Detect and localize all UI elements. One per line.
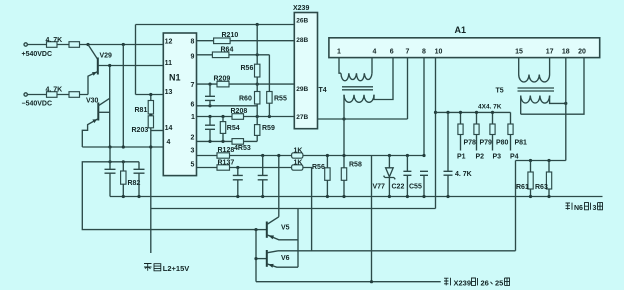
svg-text:R56: R56 [312, 164, 325, 171]
svg-text:R64: R64 [221, 47, 234, 54]
wire vertical to 26B top line [135, 25, 137, 95]
svg-text:12: 12 [165, 39, 173, 46]
svg-text:8: 8 [422, 49, 426, 56]
label 到N6的3脚 (to N6 pin 3) [566, 203, 573, 210]
wire pin20 line [521, 58, 584, 115]
node dot rail/R82 [122, 160, 125, 163]
svg-text:P3: P3 [493, 154, 502, 161]
resistor R61 leads [530, 161, 532, 197]
resistor R203 [148, 116, 153, 128]
transformer T5 upper winding [519, 75, 550, 83]
wire rail to V5/V6 base loop [82, 162, 256, 230]
svg-text:1: 1 [337, 49, 341, 56]
wire T5 lower winding left to pin20 line [520, 96, 522, 115]
node dot +540/V29 collector [86, 43, 89, 46]
svg-text:R55: R55 [274, 96, 287, 103]
svg-text:4: 4 [372, 49, 376, 56]
svg-text:1: 1 [191, 114, 195, 121]
resistor R58 [341, 168, 346, 181]
svg-text:A1: A1 [455, 25, 467, 35]
wire bottom line to X239 pins 26,25 [256, 281, 441, 283]
node dot 29B line / cap column [208, 83, 211, 86]
resistor R54 leads [222, 117, 224, 142]
node dot R56 lower top [326, 154, 329, 157]
wire pin6 line [197, 105, 258, 107]
node dot V29 base column [108, 64, 111, 67]
svg-text:17: 17 [546, 49, 554, 56]
module A1 box [329, 38, 600, 58]
resistor P81 [508, 124, 513, 135]
wire pin1 to X239 27B [197, 116, 295, 118]
transistor V30 emitter arrow [92, 119, 97, 123]
resistor (second, +540 row) [69, 42, 80, 48]
node dot pin6 / cap column [208, 104, 211, 107]
IC N1 box [163, 33, 196, 176]
resistor R55 [267, 92, 272, 104]
resistor R63 leads [548, 161, 550, 197]
resistor R64 [212, 52, 229, 58]
node dot pin3-line end / C55 top [422, 154, 425, 157]
node dot R63 top [547, 159, 550, 162]
wire X239 right edge to T4 lower winding / pin7 of A1 [318, 118, 408, 120]
resistor 1K (lower) [292, 165, 303, 170]
capacitor (pin5 to line A) [233, 168, 243, 197]
svg-text:26: 26 [481, 279, 489, 288]
svg-text:1K: 1K [294, 159, 303, 166]
svg-text:4: 4 [167, 139, 171, 146]
resistor R137 [217, 165, 230, 170]
svg-text:V6: V6 [281, 255, 290, 262]
node dots pin2 line [208, 140, 211, 143]
transistor V30 base wire [98, 111, 109, 113]
capacitor (29B to pin6) leads and plates [205, 84, 215, 106]
svg-text:7: 7 [406, 49, 410, 56]
resistor R82 leads [122, 162, 124, 197]
transistor V30 emitter [82, 119, 98, 147]
wire R81/R203/+15V feed column [150, 95, 152, 254]
node dot V6 base junction [254, 257, 257, 260]
transistor V30 collector [98, 98, 109, 106]
wire R61/R63 rail [516, 160, 566, 162]
node dot pin3 / V5 collector column [277, 154, 280, 157]
terminal +540VDC [24, 43, 27, 46]
transistor V29 emitter [88, 72, 98, 95]
resistor (second, -540 row) [69, 92, 80, 98]
capacitor C (left, under pin4 line) top lead [109, 147, 111, 169]
resistor R56 (upper) [255, 64, 260, 77]
svg-text:4. 7K: 4. 7K [455, 171, 472, 178]
svg-text:R137: R137 [218, 159, 235, 166]
transistor V6 collector [267, 251, 278, 253]
wire R55 column [268, 55, 270, 117]
ground/common line A across bottom [110, 196, 603, 198]
wire N1 pin14 line [151, 130, 164, 132]
resistor R60 [255, 92, 260, 105]
svg-text:N6: N6 [574, 205, 583, 212]
zener diode V77 leads [388, 156, 390, 197]
resistor R56 (lower) [325, 168, 330, 181]
svg-text:N1: N1 [169, 73, 181, 83]
svg-text:V5: V5 [281, 225, 290, 232]
wire V77 bypass column (pin3 line to bottom X239 line) [371, 156, 373, 282]
svg-text:14: 14 [165, 125, 173, 132]
resistor R59 [255, 125, 260, 136]
svg-text:20: 20 [578, 49, 586, 56]
wire A1 pin1 to T4 upper winding [339, 58, 341, 74]
svg-text:V77: V77 [373, 184, 386, 191]
svg-text:26B: 26B [296, 17, 308, 24]
svg-text:R203: R203 [132, 127, 149, 134]
svg-text:T4: T4 [319, 87, 327, 94]
svg-text:15: 15 [515, 49, 523, 56]
svg-text:+540VDC: +540VDC [22, 51, 53, 58]
svg-text:P80: P80 [496, 140, 509, 147]
svg-text:4. 7K: 4. 7K [46, 37, 63, 44]
svg-text:X239: X239 [454, 279, 472, 288]
node dot +540/column [122, 43, 125, 46]
svg-text:P1: P1 [457, 154, 466, 161]
resistor 4.7K (first, -540 row) [47, 92, 58, 98]
resistor P80 [490, 124, 495, 135]
svg-text:4. 7K: 4. 7K [46, 86, 63, 93]
resistor P79 leads [476, 112, 478, 150]
svg-text:4R53: 4R53 [234, 145, 251, 152]
wire A1 pin4 to T4 upper winding [371, 58, 373, 74]
svg-text:18: 18 [562, 49, 570, 56]
svg-text:13: 13 [165, 89, 173, 96]
svg-text:R59: R59 [262, 125, 275, 132]
transistor V6 emitter [267, 264, 298, 267]
svg-text:R60: R60 [239, 96, 252, 103]
transistor V29 base wire to N1 pin 11 [98, 65, 164, 67]
resistor R209 [217, 81, 229, 87]
capacitor C (left) bottom lead [109, 173, 111, 196]
resistor P81 leads [510, 112, 512, 150]
node dot pin4/cap1 column [108, 145, 111, 148]
svg-text:4X4. 7K: 4X4. 7K [478, 103, 502, 110]
svg-text:6: 6 [191, 102, 195, 109]
svg-text:5: 5 [191, 161, 195, 168]
wire top line to X239 pin 26B [136, 24, 295, 26]
label 来自L2+15V (from L2 +15V) [144, 264, 161, 271]
svg-text:R210: R210 [222, 32, 239, 39]
svg-text:3: 3 [593, 205, 597, 212]
resistor R128 [217, 153, 230, 158]
resistor P79 [474, 124, 479, 135]
wire pin3 line (to V77/C22/C55 tops) [197, 155, 425, 157]
svg-text:P2: P2 [476, 154, 485, 161]
svg-text:6: 6 [390, 49, 394, 56]
wire pin7 to X239 29B [197, 83, 295, 85]
wire pin9 / R64 line to R55 column [197, 54, 270, 56]
svg-text:P4: P4 [510, 154, 519, 161]
resistor R63 [546, 172, 551, 189]
transistor V5 base bar [266, 222, 268, 238]
capacitor C22 [403, 156, 411, 197]
node dot pin10 / 4X4.7K line [434, 111, 437, 114]
svg-text:29B: 29B [296, 86, 308, 93]
svg-text:7: 7 [191, 82, 195, 89]
transistor V5 emitter [267, 235, 298, 240]
node dot P80 [491, 111, 494, 114]
node dot pin3 line / cap [261, 154, 264, 157]
svg-text:C22: C22 [392, 184, 405, 191]
resistor R210 [214, 38, 231, 44]
node dot T4 lower-left column [342, 117, 345, 120]
node dot 29B line / R56-R60 column [256, 83, 259, 86]
transistor V6 base bar [266, 250, 268, 267]
resistor P78 [458, 124, 463, 135]
node dots pin1 line [208, 115, 211, 118]
svg-text:R81: R81 [135, 107, 148, 114]
svg-text:8: 8 [191, 38, 195, 45]
wire V6 collector line to 515 column [278, 250, 516, 252]
wire +540 rail to N1 pin 12 [28, 44, 164, 46]
svg-text:P79: P79 [480, 140, 493, 147]
wire pin5 line (to V6 collector line) [197, 168, 312, 251]
wire T4 lower winding left to 27B line / R58 column [343, 95, 345, 119]
node dot V5 base junction [254, 228, 257, 231]
terminal -540VDC [24, 93, 27, 96]
resistor R56 (lower) leads [326, 156, 328, 197]
resistor 4R53 on pin2 line [232, 139, 244, 145]
transformer T4 lower winding [344, 95, 374, 103]
node dots line A [122, 195, 125, 198]
wire N1 pin13 line [136, 94, 164, 96]
resistor R81 [148, 101, 153, 115]
node dot R61 top [529, 159, 532, 162]
svg-text:27B: 27B [296, 114, 308, 121]
transistor V5 collector [267, 217, 279, 225]
capacitor C (right of R82) lead and plates [134, 162, 145, 197]
svg-text:1K: 1K [294, 147, 303, 154]
node dot R58 top on pin3 line [342, 154, 345, 157]
capacitor (pin1 to pin2) leads and plates [205, 117, 215, 142]
svg-text:R56: R56 [241, 65, 254, 72]
zener diode V77 cathode bar [384, 176, 396, 180]
transistor V29 collector [88, 45, 98, 60]
svg-text:P78: P78 [464, 140, 477, 147]
node dot R64 line / R56 column [256, 53, 259, 56]
wire column +540 node down to pin4 line (R82 column top) [122, 45, 124, 148]
resistor 4.7K (first, +540 row) [47, 42, 58, 48]
svg-text:R208: R208 [231, 108, 248, 115]
node dot rail/cap1 [108, 160, 111, 163]
svg-text:3: 3 [191, 147, 195, 154]
capacitor (pin3 to line A) [258, 156, 268, 197]
wire A1 pin15 to T5 upper winding [518, 58, 520, 75]
node dot pin13 line [149, 93, 152, 96]
node dot 26B line / R56 column [256, 23, 259, 26]
node dot pin4/R82 column [122, 145, 125, 148]
wire 4X4.7K bus line [436, 111, 511, 113]
transformer T5 lower winding [521, 96, 550, 104]
transformer T4 core [342, 87, 373, 90]
wire R58 column (T4 to line A) [343, 119, 345, 197]
node dot between R81 and R203 [149, 113, 152, 116]
resistor 1K (upper) [292, 153, 303, 158]
svg-text:−540VDC: −540VDC [22, 101, 53, 108]
node dot pin4/+15V column [149, 145, 152, 148]
svg-text:L2+15V: L2+15V [163, 264, 189, 273]
resistor P80 leads [492, 112, 494, 150]
svg-text:V30: V30 [86, 98, 99, 105]
capacitor C55 [420, 171, 428, 196]
node dot bottom line / V77 column [370, 280, 373, 283]
resistor R208 [232, 114, 244, 120]
capacitor 4.7K (to line A) [444, 112, 453, 196]
zener diode V77 triangle [386, 168, 394, 177]
wire A1 pin7 down to 27B/T4 line [407, 58, 409, 119]
wire A1 pin17 to T5 upper winding [549, 58, 551, 75]
svg-text:2: 2 [191, 134, 195, 141]
svg-text:V29: V29 [100, 53, 113, 60]
wire pin2 line [197, 140, 258, 142]
wire pin8 to X239 28B [197, 40, 295, 42]
svg-text:R128: R128 [218, 147, 235, 154]
svg-text:R63: R63 [535, 184, 548, 191]
wire T4 lower winding right to A1 pin6 [374, 58, 393, 100]
capacitor C (left) plates [105, 169, 116, 173]
wire V5/V6 base column to bottom line [255, 230, 257, 282]
node dot C22 top [406, 154, 409, 157]
transistor V5 base wire [256, 229, 267, 231]
resistor P78 leads [460, 112, 462, 150]
transistor V6 base wire [256, 258, 267, 260]
node dot T5/pin18 column [564, 102, 567, 105]
transistor V29 emitter arrow [92, 72, 97, 76]
svg-text:R61: R61 [516, 184, 529, 191]
svg-text:28B: 28B [296, 37, 308, 44]
wire emitter column (line B to V6 emitter) [297, 209, 299, 268]
svg-text:11: 11 [165, 60, 173, 67]
svg-text:R54: R54 [227, 125, 240, 132]
transistor V29 base bar [97, 58, 99, 75]
svg-text:P81: P81 [515, 140, 528, 147]
resistor R61 [528, 172, 533, 189]
wire R56/R60/R59 stack column [256, 25, 258, 142]
wire N1 pin4 line [82, 146, 163, 148]
+15V line B [151, 208, 436, 210]
node dot V77 top [388, 154, 391, 157]
svg-text:R209: R209 [214, 76, 231, 83]
resistor R54 [220, 122, 225, 134]
transistor V30 base bar [97, 103, 99, 121]
resistor R82 [121, 171, 126, 184]
node dot pin5 line / cap [236, 166, 239, 169]
node dot P79 [475, 111, 478, 114]
connector X239 box [294, 13, 317, 129]
svg-text:10: 10 [435, 49, 443, 56]
wire A1 pin18 column down to R61/R63 line [565, 58, 567, 161]
wire vertical 515 down to V6 collector line [515, 161, 517, 251]
svg-text:R58: R58 [349, 162, 362, 169]
wire T5 lower winding right to pin18 column [550, 96, 566, 104]
svg-text:25: 25 [495, 279, 503, 288]
transformer T4 upper winding [341, 73, 372, 81]
node dot P78 [459, 111, 462, 114]
wire V5 collector column to pin3 line [278, 156, 280, 217]
wire -540 rail [28, 94, 89, 96]
svg-text:C55: C55 [409, 184, 422, 191]
wire A1 pin8 / C55 column [423, 58, 425, 156]
transistor V6 emitter arrow [268, 264, 274, 268]
label 到X239的26、25脚 (to X239 pins 26,25) [444, 278, 451, 286]
wire A1 pin10 column down to line B [435, 58, 437, 209]
svg-text:X239: X239 [293, 5, 309, 12]
svg-text:9: 9 [191, 53, 195, 60]
transistor V5 emitter arrow [268, 235, 274, 239]
svg-text:T5: T5 [496, 88, 504, 95]
wire column V29 base / V30 collector-base down to pin4 line [109, 66, 111, 148]
node dot 4.7K cap column [446, 111, 449, 114]
transformer T5 core [518, 88, 555, 91]
